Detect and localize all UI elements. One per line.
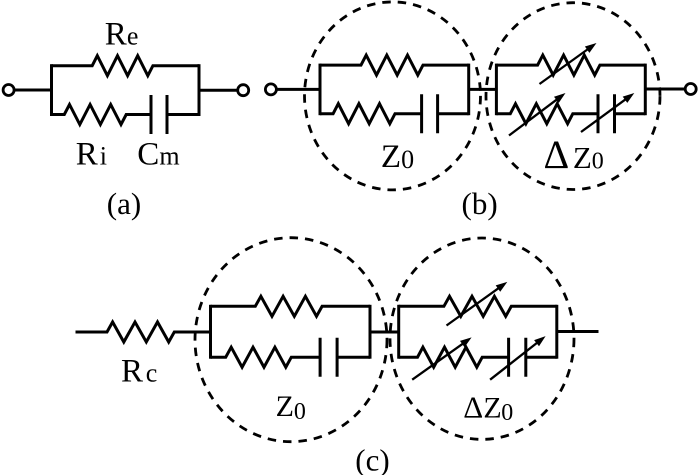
- svg-text:Ri: Ri: [76, 136, 107, 172]
- resistor (b) Z0 top: [320, 55, 469, 75]
- wire (b) connecting link: [469, 88, 497, 91]
- resistor Re: [52, 56, 200, 76]
- svg-text:ΔZ0: ΔZ0: [463, 389, 513, 426]
- enclosure Z0 dashed circle (b): [305, 2, 481, 190]
- terminal (b) right: [685, 84, 696, 95]
- wire (c) Z0 right rail: [369, 305, 372, 359]
- resistor (c) Z0 top: [211, 296, 371, 316]
- wire (b) Z0 right rail: [467, 64, 470, 116]
- wire (b) dZ0 left rail: [495, 64, 498, 116]
- resistor (c) Z0 bottom: [211, 347, 321, 367]
- variable capacitor (c) dZ0: [490, 336, 557, 380]
- capacitor (b) Z0: [422, 94, 469, 133]
- wire (c) dZ0 right rail: [555, 305, 558, 359]
- wire (b) left lead: [277, 88, 320, 91]
- wire (a) left rail: [50, 64, 53, 116]
- terminal (a) left: [3, 85, 14, 96]
- wire (c) Z0 left rail: [209, 305, 212, 359]
- capacitor (c) Z0: [320, 338, 370, 377]
- svg-text:(c): (c): [355, 442, 389, 475]
- wire (b) dZ0 right rail: [644, 64, 647, 116]
- svg-text:Cm: Cm: [137, 136, 179, 172]
- wire (b) Z0 left rail: [319, 64, 322, 116]
- wire (a) right rail: [198, 64, 201, 116]
- variable resistor (b) dZ0 top: [496, 43, 645, 84]
- wire (b) right lead: [645, 88, 685, 91]
- resistor (b) Z0 bottom: [320, 104, 422, 124]
- svg-text:Re: Re: [105, 17, 139, 53]
- svg-text:(b): (b): [462, 186, 498, 221]
- resistor Rc: [76, 322, 211, 342]
- wire (a) right lead: [199, 89, 237, 92]
- svg-text:ΔZ0: ΔZ0: [544, 132, 604, 177]
- wire (c) dZ0 left rail: [397, 305, 400, 359]
- variable resistor (c) dZ0 top: [399, 282, 557, 326]
- svg-text:Rc: Rc: [121, 353, 157, 389]
- wire (c) right lead: [557, 330, 599, 333]
- wire (c) connecting link: [370, 331, 399, 334]
- enclosure Z0 dashed circle (c): [195, 238, 387, 442]
- enclosure dZ0 dashed circle (b): [486, 3, 660, 190]
- svg-text:Z0: Z0: [276, 390, 306, 425]
- resistor Ri: [52, 105, 152, 125]
- wire (a) left lead: [15, 89, 52, 92]
- variable resistor (b) dZ0 bottom: [496, 93, 598, 136]
- variable resistor (c) dZ0 bottom: [399, 337, 509, 379]
- terminal (b) left: [265, 84, 276, 95]
- variable capacitor (b) dZ0: [581, 93, 645, 133]
- svg-text:Z0: Z0: [381, 139, 414, 175]
- terminal (a) right: [238, 85, 249, 96]
- capacitor Cm: [151, 95, 199, 134]
- svg-text:(a): (a): [107, 186, 141, 221]
- enclosure dZ0 dashed circle (c): [390, 238, 574, 439]
